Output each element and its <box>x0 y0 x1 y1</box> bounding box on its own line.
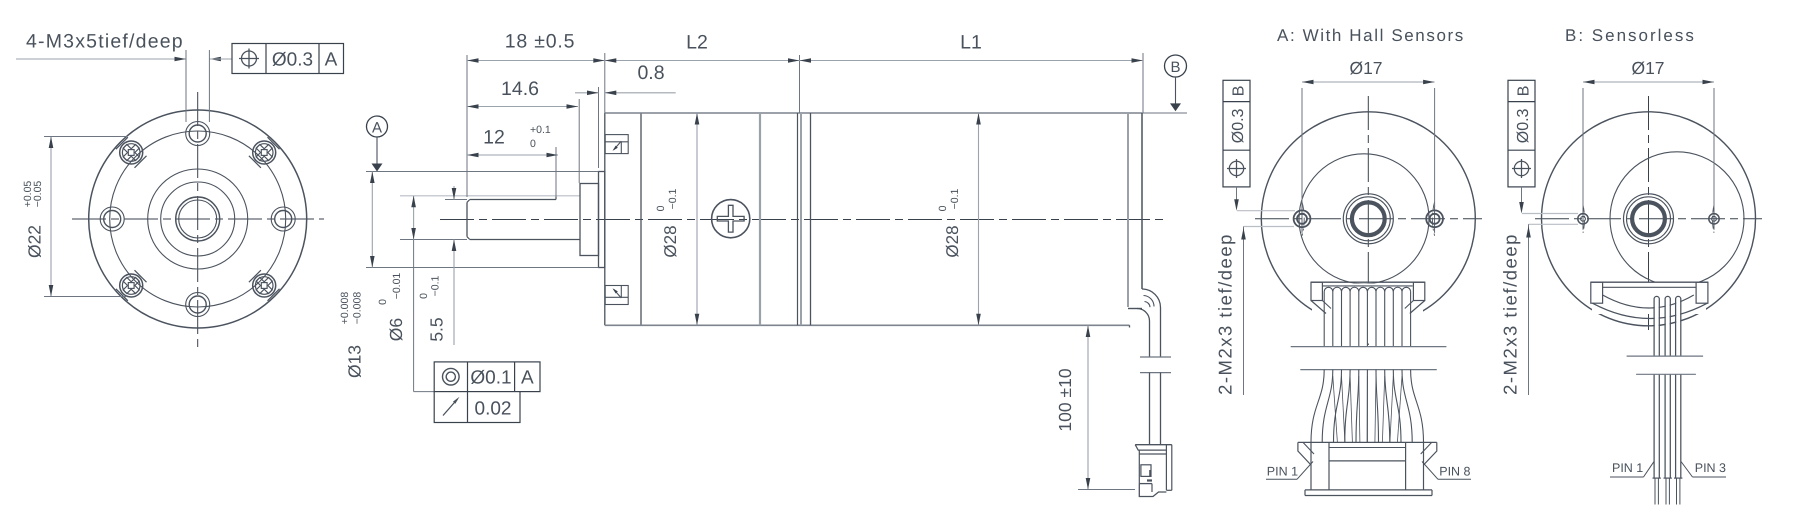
svg-text:A: A <box>521 368 534 389</box>
svg-text:Ø22: Ø22 <box>25 225 45 258</box>
svg-text:B: B <box>1231 86 1248 97</box>
svg-text:+0.008: +0.008 <box>339 292 351 325</box>
svg-text:Ø0.1: Ø0.1 <box>470 368 511 389</box>
svg-text:14.6: 14.6 <box>501 78 539 100</box>
svg-text:−0.05: −0.05 <box>32 181 44 208</box>
svg-text:Ø6: Ø6 <box>386 318 406 341</box>
svg-text:L1: L1 <box>960 32 982 54</box>
svg-text:0: 0 <box>418 293 430 299</box>
svg-text:PIN 1: PIN 1 <box>1267 465 1298 479</box>
svg-text:0: 0 <box>655 205 667 211</box>
svg-text:−0.008: −0.008 <box>352 292 364 325</box>
svg-text:−0.1: −0.1 <box>949 188 961 209</box>
svg-text:0: 0 <box>377 299 389 305</box>
svg-text:100 ±10: 100 ±10 <box>1055 368 1075 431</box>
svg-text:B: B <box>1516 86 1533 97</box>
svg-text:+0.1: +0.1 <box>530 124 551 136</box>
svg-text:A: With Hall Sensors: A: With Hall Sensors <box>1277 26 1465 45</box>
svg-text:B: B <box>1170 59 1180 76</box>
svg-text:Ø28: Ø28 <box>661 225 680 257</box>
svg-text:PIN 3: PIN 3 <box>1695 461 1726 475</box>
svg-text:0.8: 0.8 <box>637 62 664 84</box>
svg-text:5.5: 5.5 <box>427 317 447 341</box>
svg-text:0: 0 <box>937 205 949 211</box>
svg-text:12: 12 <box>483 127 505 149</box>
svg-text:−0.1: −0.1 <box>430 275 442 296</box>
svg-text:Ø0.3: Ø0.3 <box>1230 108 1247 143</box>
svg-text:Ø0.3: Ø0.3 <box>1515 108 1532 143</box>
svg-text:2-M2x3 tief/deep: 2-M2x3 tief/deep <box>1500 233 1521 395</box>
svg-text:A: A <box>325 50 338 71</box>
svg-text:Ø17: Ø17 <box>1631 58 1664 78</box>
svg-text:−0.01: −0.01 <box>391 273 403 300</box>
svg-text:Ø17: Ø17 <box>1349 58 1382 78</box>
svg-text:Ø28: Ø28 <box>943 225 962 257</box>
svg-text:PIN 1: PIN 1 <box>1612 461 1643 475</box>
svg-text:4-M3x5tief/deep: 4-M3x5tief/deep <box>26 31 184 53</box>
svg-text:18 ±0.5: 18 ±0.5 <box>505 31 576 53</box>
svg-text:2-M2x3 tief/deep: 2-M2x3 tief/deep <box>1215 233 1236 395</box>
svg-text:Ø0.3: Ø0.3 <box>272 50 313 71</box>
svg-text:Ø13: Ø13 <box>345 345 365 378</box>
svg-text:0.02: 0.02 <box>475 399 512 420</box>
svg-text:L2: L2 <box>686 32 708 54</box>
svg-text:0: 0 <box>530 138 536 150</box>
svg-text:−0.1: −0.1 <box>667 188 679 209</box>
svg-text:PIN 8: PIN 8 <box>1439 465 1470 479</box>
svg-text:A: A <box>372 120 382 137</box>
svg-text:B: Sensorless: B: Sensorless <box>1565 26 1696 45</box>
